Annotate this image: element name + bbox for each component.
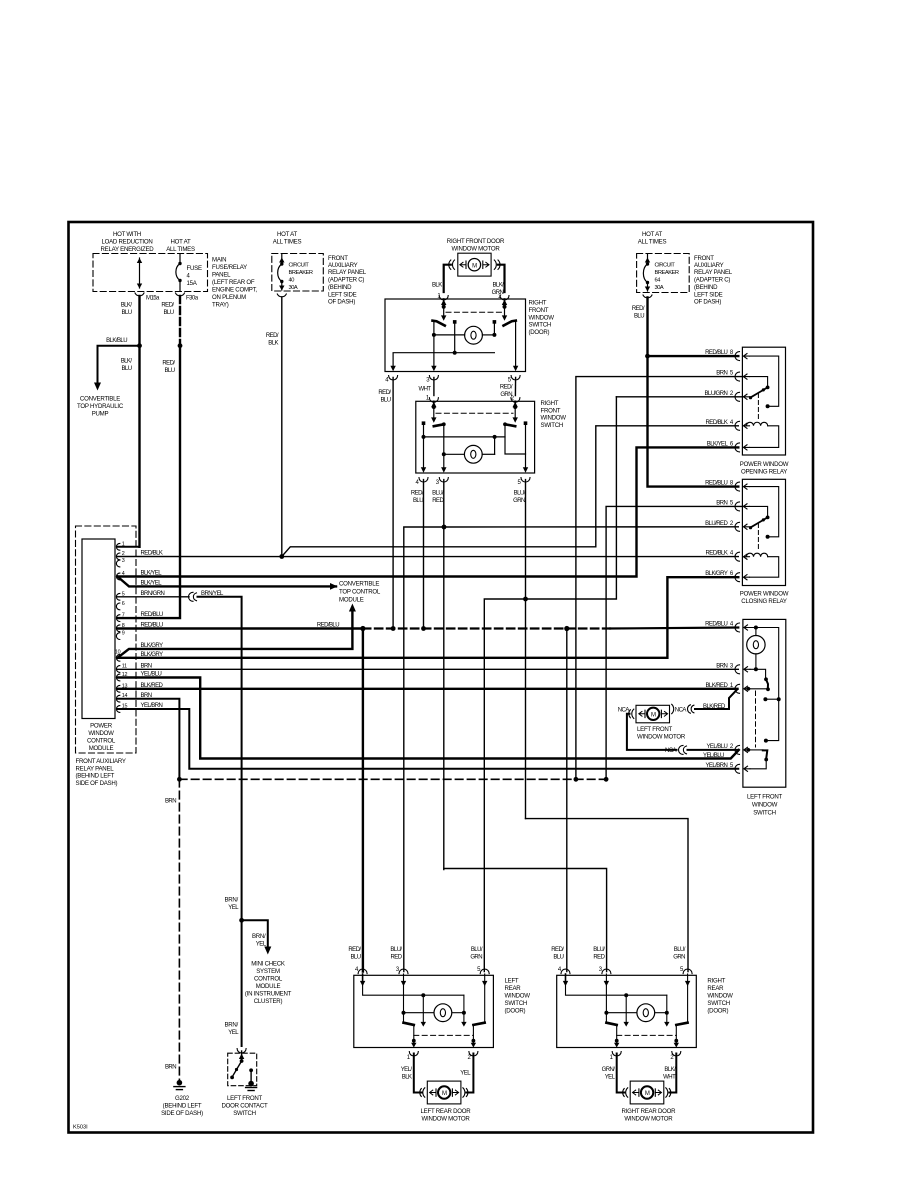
- svg-text:BLK/: BLK/: [664, 1067, 676, 1073]
- svg-text:BLU/: BLU/: [593, 947, 605, 953]
- svg-text:SWITCH: SWITCH: [541, 422, 564, 429]
- wire RED/BLU pin8 to bus: [118, 623, 366, 632]
- svg-text:BLK: BLK: [432, 283, 442, 289]
- svg-text:WINDOW: WINDOW: [505, 993, 531, 1000]
- svg-text:RED: RED: [390, 955, 402, 961]
- svg-text:RIGHT: RIGHT: [707, 978, 725, 985]
- opening relay pin 5: [735, 372, 740, 381]
- node BRN dashed ground bus: [165, 779, 606, 1080]
- svg-text:NCA: NCA: [665, 748, 677, 754]
- svg-text:PUMP: PUMP: [92, 410, 109, 417]
- svg-text:RED/BLU: RED/BLU: [705, 622, 727, 628]
- closing relay pin 4: [735, 552, 740, 561]
- svg-text:GRN: GRN: [513, 498, 525, 504]
- right front door window motor: [447, 238, 505, 276]
- svg-text:BLK: BLK: [402, 1075, 412, 1081]
- main fuse/relay panel: [93, 231, 257, 308]
- svg-text:RED/BLU: RED/BLU: [141, 612, 163, 618]
- wire RED/BLU switch1 pin4 down to bus: [391, 378, 396, 631]
- svg-text:9: 9: [122, 631, 125, 637]
- svg-text:(BEHIND LEFT: (BEHIND LEFT: [76, 773, 115, 780]
- svg-text:WHT: WHT: [418, 386, 431, 392]
- svg-text:NCA: NCA: [675, 707, 687, 713]
- circuit breaker 40 30A: [272, 231, 367, 305]
- svg-text:BLU/: BLU/: [390, 947, 402, 953]
- svg-text:RELAY PANEL: RELAY PANEL: [76, 765, 115, 772]
- opening relay internals: [750, 356, 779, 406]
- svg-text:FRONT: FRONT: [541, 407, 561, 414]
- svg-text:SWITCH: SWITCH: [233, 1110, 256, 1117]
- opening relay pin 4: [735, 421, 740, 430]
- left front window switch: [705, 619, 786, 816]
- svg-text:BREAKER: BREAKER: [655, 270, 679, 276]
- svg-text:M: M: [651, 712, 656, 718]
- svg-text:LEFT SIDE: LEFT SIDE: [328, 291, 357, 298]
- svg-text:SWITCH: SWITCH: [753, 810, 776, 817]
- svg-text:LEFT REAR DOOR: LEFT REAR DOOR: [421, 1108, 472, 1115]
- svg-text:RIGHT REAR DOOR: RIGHT REAR DOOR: [622, 1108, 677, 1115]
- svg-text:30A: 30A: [289, 285, 298, 291]
- svg-text:30A: 30A: [655, 285, 664, 291]
- convertible top control module text: [339, 581, 381, 604]
- wire RED/BLU bus down to left rear switch pin4: [362, 629, 364, 972]
- svg-text:BLK/YEL: BLK/YEL: [141, 581, 163, 587]
- wire BLU/RED net: [404, 480, 739, 972]
- svg-text:CONVERTIBLE: CONVERTIBLE: [339, 581, 379, 588]
- svg-text:LEFT: LEFT: [505, 978, 519, 985]
- svg-text:CONTROL: CONTROL: [87, 738, 116, 745]
- svg-text:(DOOR): (DOOR): [707, 1008, 728, 1015]
- svg-text:WINDOW: WINDOW: [752, 802, 778, 809]
- svg-text:HOT AT: HOT AT: [171, 239, 191, 246]
- right front window switch (door) box: [385, 299, 554, 372]
- svg-text:7: 7: [122, 613, 125, 619]
- svg-text:SWITCH: SWITCH: [707, 1000, 730, 1007]
- svg-text:BLK/BLU: BLK/BLU: [106, 338, 127, 344]
- svg-text:HOT WITH: HOT WITH: [113, 231, 141, 238]
- svg-text:YEL/BLU: YEL/BLU: [703, 753, 724, 759]
- svg-text:(DOOR): (DOOR): [529, 329, 550, 336]
- svg-text:BRN: BRN: [165, 799, 176, 805]
- svg-text:BRN: BRN: [716, 371, 727, 377]
- svg-text:FRONT: FRONT: [694, 255, 714, 262]
- svg-text:GRN: GRN: [673, 955, 685, 961]
- svg-text:YEL/BRN: YEL/BRN: [141, 703, 163, 709]
- wire NCA left motor lead: [618, 707, 739, 754]
- svg-text:40: 40: [289, 278, 295, 284]
- wire BLK/GRY module pin10 to closing relay pin6: [118, 577, 739, 658]
- module pin stubs 1-15: [115, 541, 128, 712]
- svg-text:RED/: RED/: [411, 490, 424, 496]
- svg-text:RIGHT: RIGHT: [529, 300, 547, 307]
- svg-text:MODULE: MODULE: [339, 597, 364, 604]
- svg-text:YEL/BLU: YEL/BLU: [141, 672, 162, 678]
- svg-text:YEL: YEL: [256, 942, 267, 948]
- lf switch pin 2: [735, 745, 740, 754]
- right front window switch box: [416, 400, 566, 473]
- opening relay pin 6: [735, 443, 740, 452]
- node RED/BLU dashed bus: [363, 626, 738, 631]
- left rear window switch (door): [354, 969, 494, 1056]
- svg-text:BLK/GRY: BLK/GRY: [141, 652, 164, 658]
- svg-text:WINDOW MOTOR: WINDOW MOTOR: [637, 734, 686, 741]
- wire BLU/GRN opening relay pin2: [616, 396, 743, 398]
- svg-text:RIGHT FRONT DOOR: RIGHT FRONT DOOR: [447, 238, 505, 245]
- svg-text:YEL: YEL: [605, 1075, 616, 1081]
- svg-text:M: M: [442, 1091, 447, 1097]
- wire BLK/GRN (motor to switch pin 2): [492, 265, 509, 300]
- svg-text:BLK/YEL: BLK/YEL: [141, 571, 163, 577]
- svg-text:BLU: BLU: [164, 368, 174, 374]
- svg-text:YEL: YEL: [228, 1030, 239, 1036]
- svg-text:M15a: M15a: [146, 296, 160, 302]
- svg-text:HOT AT: HOT AT: [277, 231, 297, 238]
- svg-text:RED/BLK: RED/BLK: [141, 551, 163, 557]
- svg-text:BREAKER: BREAKER: [289, 270, 313, 276]
- svg-text:BLU/: BLU/: [432, 490, 444, 496]
- ground G202: [161, 1080, 203, 1117]
- wire RED/BLU from circuit breaker 64 to relays: [632, 298, 738, 487]
- svg-text:BLU: BLU: [121, 310, 131, 316]
- wire RED/BLK from circuit breaker 40: [266, 297, 284, 559]
- svg-text:WINDOW: WINDOW: [529, 314, 555, 321]
- svg-text:GRN: GRN: [470, 955, 482, 961]
- svg-text:BLK/: BLK/: [121, 303, 133, 309]
- svg-text:BLU/GRN: BLU/GRN: [704, 391, 727, 397]
- svg-text:BRN: BRN: [716, 500, 727, 506]
- wire BLK/BLU branch to convertible top hydraulic pump: [77, 338, 139, 417]
- svg-text:CIRCUIT: CIRCUIT: [655, 263, 676, 269]
- svg-text:RED/BLK: RED/BLK: [705, 420, 727, 426]
- svg-text:ON PLENUM: ON PLENUM: [212, 294, 246, 301]
- svg-text:RED/BLU: RED/BLU: [705, 350, 727, 356]
- svg-text:BLU: BLU: [553, 955, 563, 961]
- svg-text:CIRCUIT: CIRCUIT: [289, 263, 310, 269]
- svg-text:CLOSING RELAY: CLOSING RELAY: [741, 598, 787, 605]
- svg-text:MODULE: MODULE: [256, 983, 281, 990]
- wire BLK/GRY pin10 to convertible top control module (up arrow): [118, 604, 356, 659]
- lf switch pin 4: [735, 623, 740, 632]
- svg-text:AUXILIARY: AUXILIARY: [328, 262, 358, 269]
- wire RED/BLK to both relay pins 4: [118, 426, 739, 557]
- svg-text:BLK: BLK: [268, 341, 278, 347]
- svg-text:BRN/: BRN/: [224, 1022, 238, 1029]
- power window opening relay: [704, 347, 788, 475]
- svg-text:YEL: YEL: [460, 1071, 471, 1077]
- svg-text:RED/: RED/: [348, 947, 361, 953]
- svg-text:SWITCH: SWITCH: [505, 1000, 528, 1007]
- svg-text:(IN INSTRUMENT: (IN INSTRUMENT: [245, 991, 292, 998]
- wire BLK/YEL pin4 double: [118, 571, 338, 590]
- svg-text:FRONT: FRONT: [328, 255, 348, 262]
- svg-text:FRONT AUXILIARY: FRONT AUXILIARY: [76, 758, 126, 765]
- svg-text:(BEHIND LEFT: (BEHIND LEFT: [163, 1102, 202, 1109]
- circuit breaker 64 30A: [637, 231, 733, 305]
- wire BLU/GRN net: [484, 397, 688, 972]
- svg-text:YEL/: YEL/: [401, 1067, 413, 1073]
- closing relay internals: [750, 487, 779, 537]
- svg-text:ENGINE COMPT,: ENGINE COMPT,: [212, 287, 257, 294]
- svg-text:SWITCH: SWITCH: [529, 322, 552, 329]
- svg-text:(LEFT REAR OF: (LEFT REAR OF: [212, 279, 255, 286]
- svg-text:BLU: BLU: [121, 366, 131, 372]
- svg-text:RED/BLU: RED/BLU: [705, 481, 727, 487]
- svg-text:(ADAPTER C): (ADAPTER C): [328, 276, 364, 283]
- svg-text:BLU: BLU: [163, 310, 173, 316]
- svg-text:BLU/: BLU/: [514, 490, 526, 496]
- svg-text:BLK/RED: BLK/RED: [703, 704, 726, 710]
- svg-text:OPENING RELAY: OPENING RELAY: [741, 468, 787, 475]
- svg-text:M: M: [645, 1091, 650, 1097]
- left front window motor: [636, 705, 686, 740]
- svg-text:F30a: F30a: [186, 296, 199, 302]
- closing relay pin 8: [735, 482, 740, 491]
- svg-text:BRN/: BRN/: [224, 897, 238, 904]
- wire BLK/YEL module pin4 to opening relay pin6: [118, 447, 739, 576]
- wire module pin1 to BLK/BLU feed: [118, 546, 140, 548]
- svg-text:BRN: BRN: [716, 663, 727, 669]
- svg-text:PANEL: PANEL: [212, 272, 231, 279]
- svg-text:RELAY PANEL: RELAY PANEL: [694, 269, 733, 276]
- wire BRN/YEL branch to mini check system control module: [224, 897, 291, 1006]
- svg-text:BLK/GRY: BLK/GRY: [141, 643, 164, 649]
- lf switch pin 1: [735, 684, 740, 693]
- svg-text:(DOOR): (DOOR): [505, 1008, 526, 1015]
- svg-text:POWER: POWER: [90, 723, 113, 730]
- svg-text:RELAY ENERGIZED: RELAY ENERGIZED: [101, 246, 155, 253]
- svg-text:OF DASH): OF DASH): [694, 299, 721, 306]
- svg-text:BRN: BRN: [165, 1065, 176, 1071]
- wire RED/GRN (pin5 to lower switch pin2): [511, 378, 520, 403]
- svg-text:LOAD REDUCTION: LOAD REDUCTION: [101, 239, 152, 246]
- svg-text:CONVERTIBLE: CONVERTIBLE: [80, 395, 120, 402]
- opening relay pin 2: [735, 392, 740, 401]
- svg-text:NCA: NCA: [618, 707, 630, 713]
- svg-text:WHT: WHT: [663, 1075, 676, 1081]
- svg-text:OF DASH): OF DASH): [328, 299, 355, 306]
- closing relay pin 2: [735, 522, 740, 531]
- wire YEL/BRN pin15 to left front window switch pin5: [118, 703, 739, 769]
- wire RED/BLU switch2 pin4 down to bus: [421, 480, 426, 631]
- svg-text:WINDOW: WINDOW: [88, 730, 114, 737]
- svg-text:64: 64: [655, 278, 661, 284]
- svg-text:BLU/RED: BLU/RED: [705, 521, 728, 527]
- svg-text:BRN: BRN: [141, 693, 152, 699]
- svg-text:YEL/BRN: YEL/BRN: [705, 763, 727, 769]
- svg-text:RED: RED: [593, 955, 605, 961]
- svg-text:M: M: [472, 263, 477, 269]
- svg-text:(BEHIND: (BEHIND: [328, 284, 352, 291]
- lf switch internals: [754, 626, 758, 630]
- svg-text:RED/: RED/: [500, 385, 513, 391]
- svg-text:RED/: RED/: [162, 361, 175, 367]
- svg-text:WINDOW: WINDOW: [707, 993, 733, 1000]
- svg-text:REAR: REAR: [505, 985, 522, 992]
- right rear door window motor: [617, 1054, 677, 1104]
- wire BLK/BLU from M15a: [121, 296, 142, 547]
- wire RED/BLU bus down to right rear switch pin4: [566, 629, 568, 972]
- wire BLK/RED pin13 to left front window switch pin1: [118, 683, 738, 689]
- svg-text:BLU/: BLU/: [674, 947, 686, 953]
- wire BLK (motor to switch pin 1): [432, 265, 451, 300]
- svg-text:(BEHIND: (BEHIND: [694, 284, 718, 291]
- svg-text:ALL TIMES: ALL TIMES: [638, 239, 667, 246]
- wire BRN pin14 to BRN bus: [118, 693, 182, 782]
- svg-text:FUSE/RELAY: FUSE/RELAY: [212, 264, 247, 271]
- wire BRN closing relay pin5 to BRN bus: [604, 506, 744, 781]
- node M15a feed (load reduction relay): [135, 258, 160, 302]
- svg-text:LEFT FRONT: LEFT FRONT: [227, 1095, 262, 1102]
- svg-text:BLK/RED: BLK/RED: [705, 683, 728, 689]
- wire BRN/YEL down to door contact switch: [224, 920, 246, 1053]
- svg-text:WINDOW: WINDOW: [541, 415, 567, 422]
- svg-text:RIGHT: RIGHT: [541, 400, 559, 407]
- svg-text:RED/: RED/: [378, 390, 391, 396]
- svg-text:BLK/RED: BLK/RED: [141, 683, 164, 689]
- svg-text:ALL TIMES: ALL TIMES: [166, 246, 195, 253]
- svg-text:ALL TIMES: ALL TIMES: [273, 239, 302, 246]
- svg-text:REAR: REAR: [707, 985, 724, 992]
- svg-text:BRN/GRN: BRN/GRN: [141, 591, 165, 597]
- svg-text:RELAY PANEL: RELAY PANEL: [328, 269, 367, 276]
- svg-text:BLU: BLU: [634, 314, 644, 320]
- svg-text:SYSTEM: SYSTEM: [256, 968, 280, 975]
- svg-text:K503I: K503I: [73, 1125, 88, 1131]
- svg-text:CONTROL: CONTROL: [254, 976, 283, 983]
- svg-text:LEFT SIDE: LEFT SIDE: [694, 291, 723, 298]
- svg-text:RED/: RED/: [161, 303, 174, 309]
- svg-text:BRN: BRN: [141, 663, 152, 669]
- wire RED/BLU from fuse F30a to module pin 7: [118, 296, 183, 618]
- lower switch pins 4 3 5: [411, 478, 530, 504]
- svg-text:YEL: YEL: [228, 905, 239, 911]
- opening relay pin 8: [735, 352, 740, 361]
- svg-text:BLK/: BLK/: [492, 283, 504, 289]
- svg-text:TOP HYDRAULIC: TOP HYDRAULIC: [77, 403, 124, 410]
- lf switch pin 5: [735, 764, 740, 773]
- svg-text:BLU: BLU: [380, 398, 390, 404]
- svg-text:AUXILIARY: AUXILIARY: [694, 262, 724, 269]
- right front window switch internals: [421, 401, 528, 472]
- wire BRN opening relay pin5 to BRN bus: [574, 377, 744, 782]
- power window control module: [76, 526, 137, 787]
- svg-text:RED/BLK: RED/BLK: [705, 551, 727, 557]
- svg-text:HOT AT: HOT AT: [642, 231, 662, 238]
- left rear door window motor: [414, 1054, 474, 1104]
- svg-text:MODULE: MODULE: [89, 745, 114, 752]
- svg-text:BLU: BLU: [350, 955, 360, 961]
- svg-text:RED/BLU: RED/BLU: [317, 623, 339, 629]
- svg-text:4: 4: [122, 571, 125, 577]
- svg-text:RED: RED: [432, 498, 444, 504]
- lf switch pin 3: [735, 665, 740, 674]
- right rear window switch (door): [557, 969, 697, 1056]
- svg-text:RED/: RED/: [551, 947, 564, 953]
- svg-text:BLU: BLU: [413, 498, 423, 504]
- closing relay pin 6: [735, 573, 740, 582]
- svg-text:TOP CONTROL: TOP CONTROL: [339, 589, 381, 596]
- svg-text:DOOR CONTACT: DOOR CONTACT: [222, 1103, 269, 1110]
- fuse F30a 15A: [176, 254, 202, 302]
- pin 4 / pin 3 / pin 5 of door switch: [378, 376, 520, 404]
- svg-text:LEFT FRONT: LEFT FRONT: [747, 794, 782, 801]
- svg-text:SIDE OF DASH): SIDE OF DASH): [76, 780, 118, 787]
- wire BRN pin11 to left front window switch pin3: [118, 663, 739, 669]
- svg-text:G202: G202: [175, 1095, 190, 1102]
- svg-text:15A: 15A: [187, 280, 198, 287]
- wire YEL/BLU pin12 to left front window switch pin2: [118, 672, 739, 759]
- svg-text:BLU/: BLU/: [471, 947, 483, 953]
- svg-text:LEFT FRONT: LEFT FRONT: [637, 726, 672, 733]
- svg-text:RED/: RED/: [632, 306, 645, 312]
- svg-text:WINDOW MOTOR: WINDOW MOTOR: [624, 1116, 673, 1123]
- svg-text:WINDOW MOTOR: WINDOW MOTOR: [452, 246, 501, 253]
- wire WHT (pin3 to lower switch pin1): [426, 378, 438, 403]
- svg-text:FUSE: FUSE: [187, 265, 202, 272]
- svg-text:MAIN: MAIN: [212, 257, 226, 264]
- svg-text:2: 2: [122, 551, 125, 557]
- svg-text:RED/BLU: RED/BLU: [141, 623, 163, 629]
- svg-text:WINDOW MOTOR: WINDOW MOTOR: [422, 1116, 471, 1123]
- wire NCA right motor lead BLK/RED: [672, 689, 738, 713]
- svg-text:3: 3: [122, 558, 125, 564]
- left front door contact switch: [222, 1051, 269, 1117]
- svg-text:GRN/: GRN/: [602, 1067, 616, 1073]
- svg-text:FRONT: FRONT: [529, 307, 549, 314]
- svg-text:(ADAPTER C): (ADAPTER C): [694, 276, 730, 283]
- svg-text:BRN/: BRN/: [252, 933, 266, 940]
- svg-text:SIDE OF DASH): SIDE OF DASH): [161, 1110, 203, 1117]
- svg-text:POWER WINDOW: POWER WINDOW: [740, 591, 789, 598]
- svg-text:6: 6: [122, 601, 125, 607]
- svg-text:BLK/: BLK/: [121, 359, 133, 365]
- svg-text:CLUSTER): CLUSTER): [254, 998, 283, 1005]
- svg-text:POWER WINDOW: POWER WINDOW: [740, 461, 789, 468]
- svg-text:TRAY): TRAY): [212, 302, 229, 309]
- right front window switch (door) internals: [390, 299, 518, 371]
- svg-text:MINI CHECK: MINI CHECK: [251, 961, 285, 968]
- wire BRN/GRN pin5 with inline connector to BRN/YEL: [118, 591, 242, 920]
- closing relay pin 5: [735, 502, 740, 511]
- power window closing relay: [705, 479, 789, 605]
- svg-text:RED/: RED/: [266, 333, 279, 339]
